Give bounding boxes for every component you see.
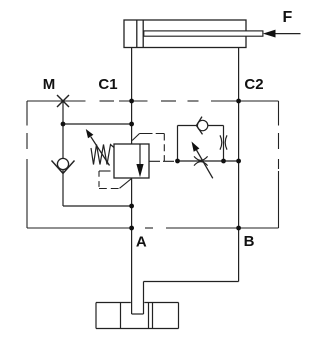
wire: C2 line down to B (238, 101, 240, 228)
flow control bypass top line (178, 125, 224, 127)
cylinder piston (137, 20, 143, 48)
internal pilot dashed loop left (99, 171, 131, 189)
pilot line dashed to flow control (149, 160, 178, 162)
cylinder rod (144, 31, 263, 36)
valve spring (91, 145, 114, 165)
wire: cylinder cap port to C1 (131, 48, 133, 102)
spring adjustment arrow (86, 129, 110, 166)
force arrow F (263, 30, 301, 38)
bypass check valve CV2 (196, 117, 207, 135)
wire: cross link M branch to C1 line (63, 123, 132, 125)
flow control bypass right vertical (223, 126, 225, 162)
hydraulic cylinder body (124, 20, 246, 48)
junction dots (61, 99, 241, 231)
body block (line body) (96, 303, 179, 329)
valve flow path arrow (136, 144, 143, 177)
flow control bypass left vertical (177, 126, 179, 162)
adjustable throttle arcs (194, 156, 208, 165)
svg-text:B: B (244, 233, 255, 250)
wire: valve outlet down to A (131, 178, 133, 228)
pilot line dashed vertical (163, 134, 165, 162)
svg-text:C1: C1 (98, 76, 117, 93)
wire: check valve branch (62, 124, 64, 206)
svg-text:A: A (136, 233, 147, 250)
pilot line dashed horizontal upper (140, 133, 165, 135)
throttle adjustment arrow (192, 142, 213, 179)
svg-text:C2: C2 (244, 76, 263, 93)
plugged port M (X symbol) (57, 95, 69, 107)
manifold boundary top edge (27, 100, 279, 102)
wire: horizontal to B leg (144, 281, 239, 283)
manifold boundary left edge (26, 101, 28, 228)
counterbalance valve body V1 (114, 144, 149, 178)
flow control assembly: bottom line with throttle (178, 160, 239, 162)
manifold boundary right edge (278, 101, 280, 228)
wire: C1 line into valve (131, 101, 133, 144)
wire: check valve to node A line (63, 205, 132, 207)
wire: M port down (62, 101, 64, 124)
svg-text:F: F (283, 9, 293, 26)
wire: cylinder rod port to C2 (238, 48, 240, 102)
manifold boundary bottom edge (27, 227, 279, 229)
wire: A port down to body block (131, 228, 133, 314)
check valve CV1 (52, 158, 75, 173)
svg-text:M: M (43, 76, 56, 93)
wire: B port down (238, 228, 240, 282)
pilot tap diagonal (132, 134, 139, 141)
wire: internal U link in block (132, 313, 144, 315)
fixed orifice (220, 135, 227, 149)
wire: up from block (143, 282, 145, 315)
